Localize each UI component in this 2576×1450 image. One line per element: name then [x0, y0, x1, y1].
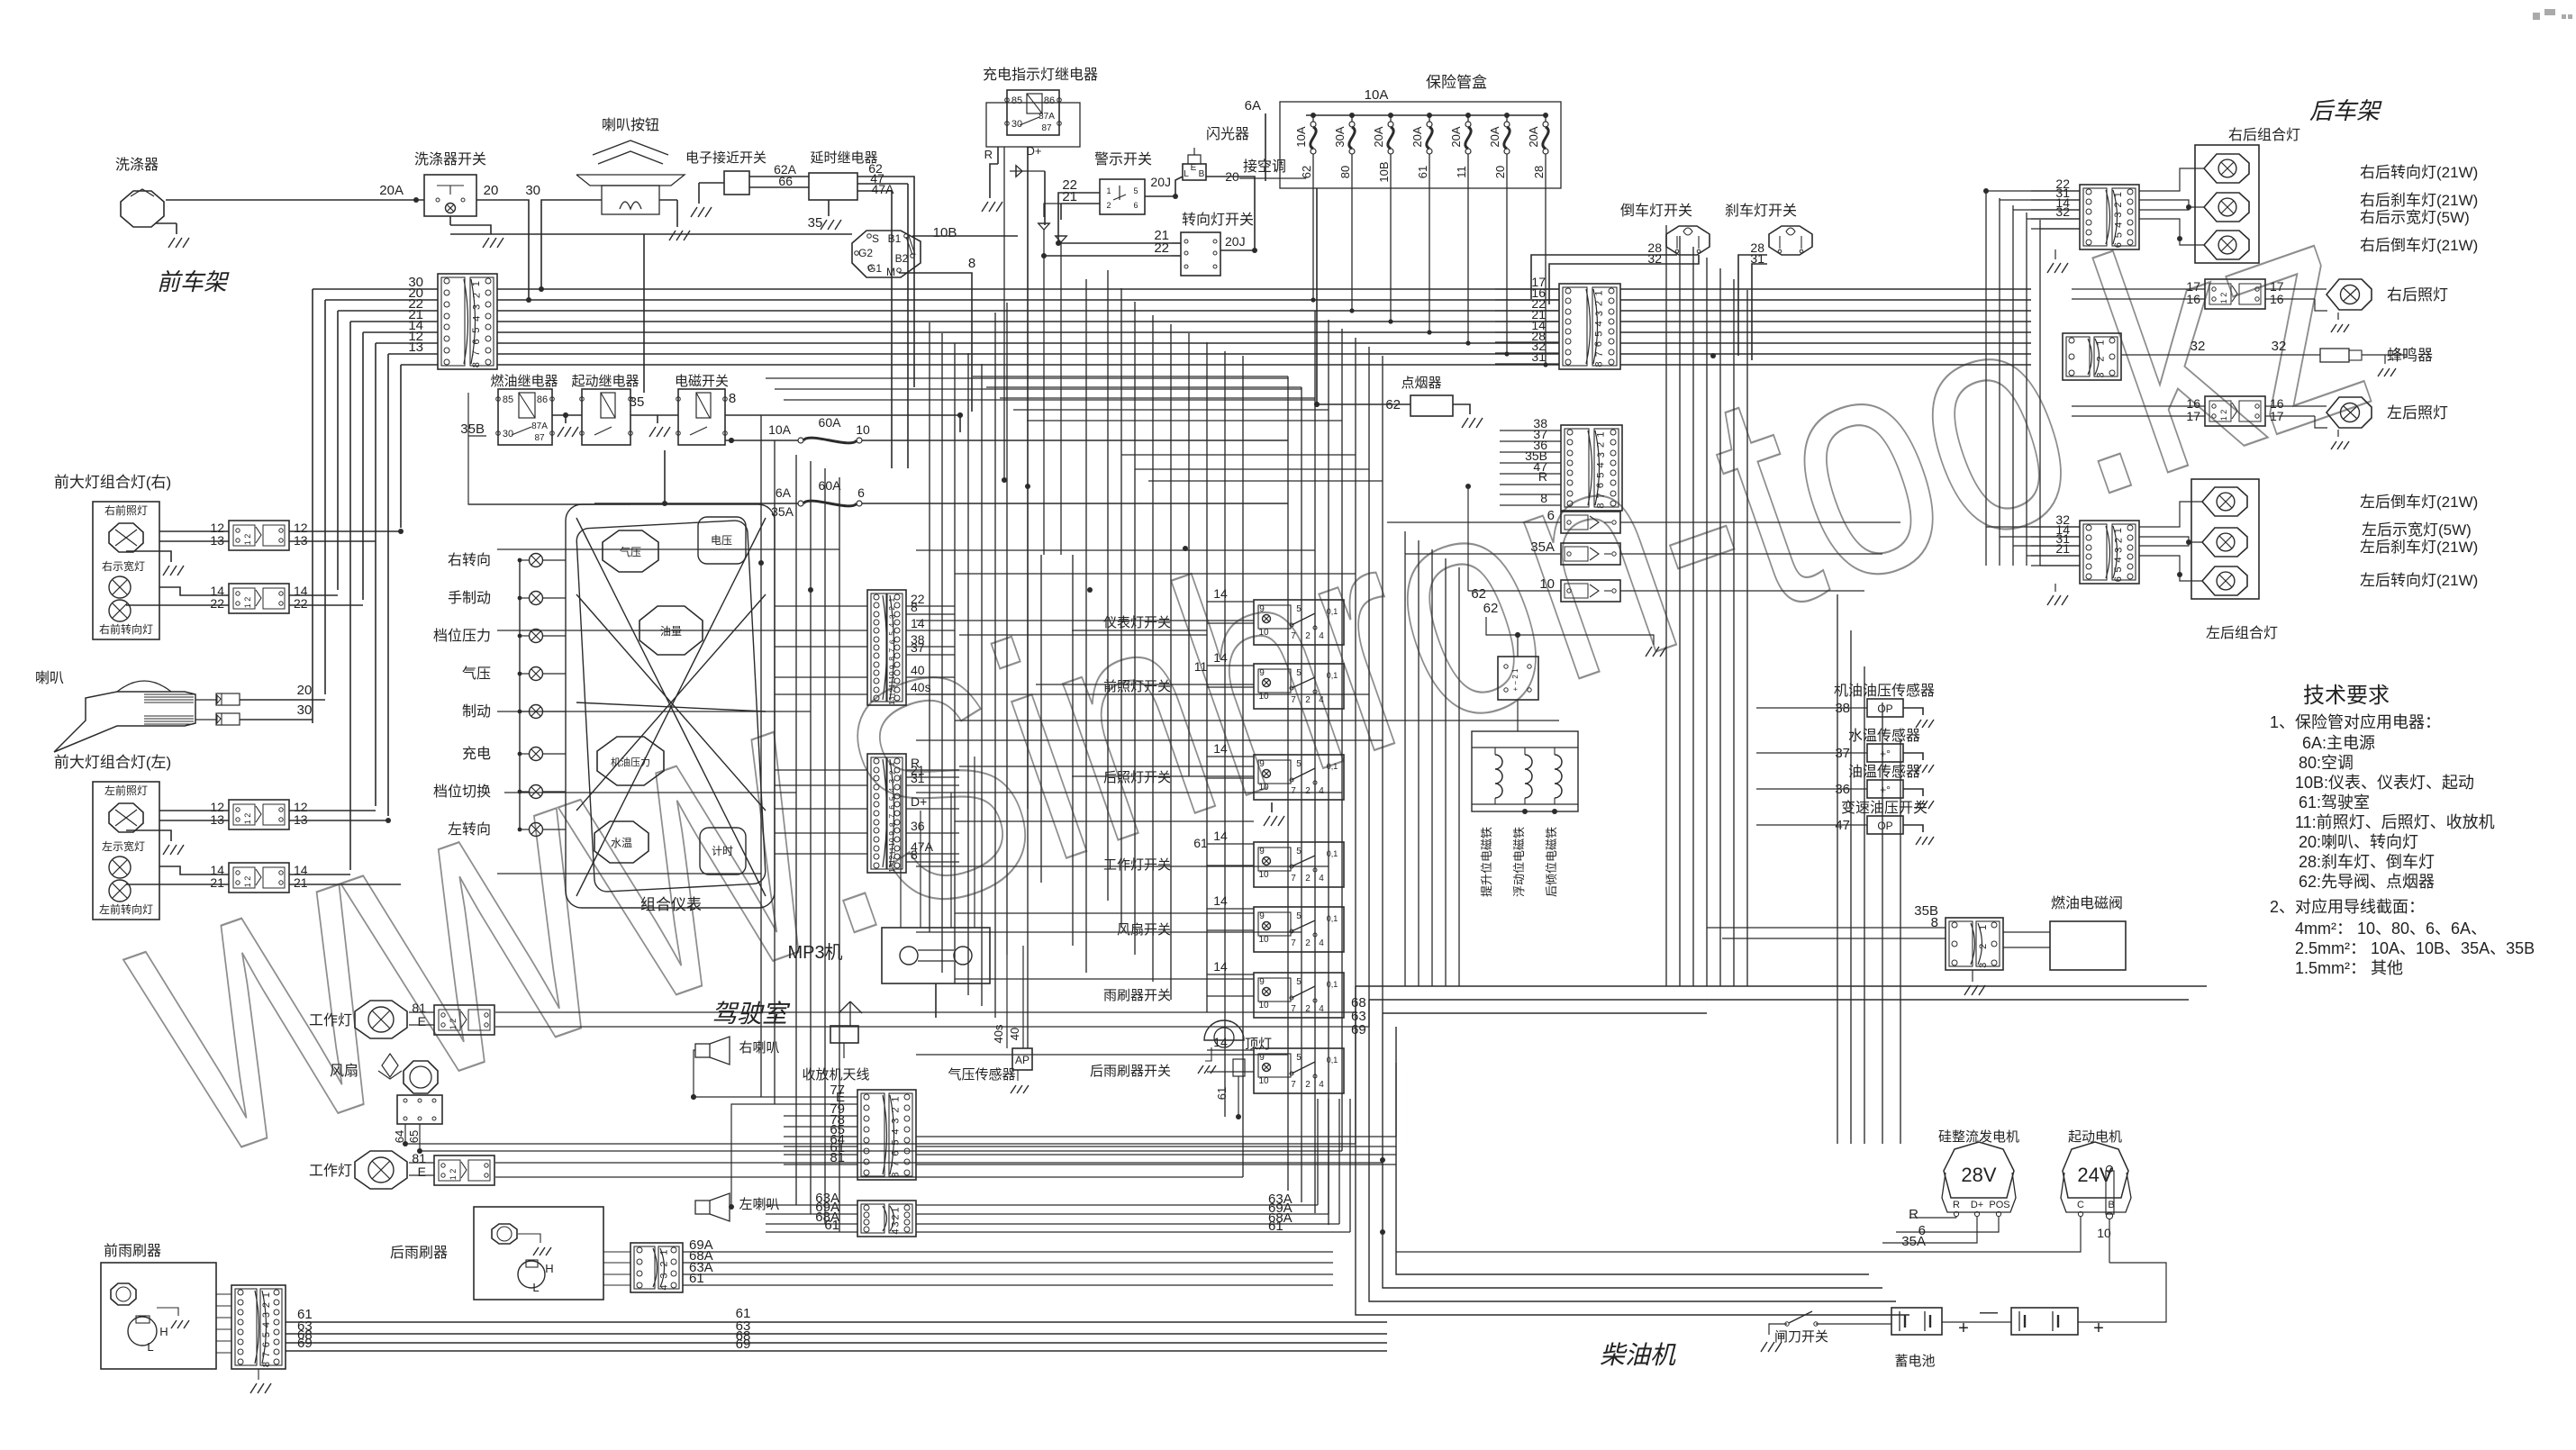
svg-text:电磁开关: 电磁开关: [675, 374, 729, 389]
svg-text:9: 9: [1259, 759, 1265, 769]
svg-text:右后转向灯(21W): 右后转向灯(21W): [2360, 164, 2478, 181]
svg-text:80:空调: 80:空调: [2299, 754, 2354, 772]
svg-text:G2: G2: [858, 247, 873, 259]
svg-text:5: 5: [1133, 186, 1138, 195]
svg-text:H: H: [159, 1325, 168, 1338]
svg-text:1 2: 1 2: [243, 813, 252, 825]
svg-text:左后转向灯(21W): 左后转向灯(21W): [2360, 572, 2478, 589]
svg-text:起动继电器: 起动继电器: [571, 374, 639, 389]
svg-text:6: 6: [471, 339, 482, 344]
svg-text:组合仪表: 组合仪表: [640, 896, 702, 913]
svg-text:1: 1: [891, 1096, 902, 1101]
svg-text:5: 5: [891, 1139, 902, 1145]
svg-text:7: 7: [1291, 631, 1296, 641]
svg-text:10: 10: [1258, 1001, 1269, 1010]
svg-text:10: 10: [1539, 576, 1555, 592]
svg-text:10: 10: [1258, 628, 1269, 638]
svg-text:4: 4: [1319, 1080, 1324, 1090]
svg-text:6A: 6A: [1245, 98, 1261, 113]
svg-text:右喇叭: 右喇叭: [739, 1040, 779, 1056]
svg-text:3: 3: [2114, 548, 2125, 553]
svg-text:30: 30: [525, 183, 540, 198]
svg-text:62: 62: [1471, 586, 1486, 602]
svg-text:2: 2: [891, 1107, 902, 1112]
svg-text:后雨刷器: 后雨刷器: [390, 1245, 448, 1261]
svg-text:11: 11: [887, 847, 896, 855]
svg-text:1: 1: [1106, 186, 1111, 195]
svg-text:风扇: 风扇: [330, 1063, 358, 1079]
svg-text:9: 9: [887, 831, 896, 836]
svg-text:1 2: 1 2: [2219, 410, 2228, 421]
svg-text:86: 86: [1044, 95, 1055, 106]
svg-text:档位切换: 档位切换: [433, 784, 491, 800]
svg-text:10: 10: [1258, 1076, 1269, 1086]
svg-text:前照灯开关: 前照灯开关: [1103, 679, 1171, 694]
svg-text:5: 5: [1296, 847, 1302, 856]
svg-text:左后照灯: 左后照灯: [2387, 404, 2448, 421]
svg-text:5: 5: [1593, 331, 1604, 337]
svg-text:蜂鸣器: 蜂鸣器: [2387, 347, 2433, 364]
svg-text:10: 10: [1258, 692, 1269, 702]
svg-text:+: +: [2093, 1319, 2104, 1338]
svg-text:提升位电磁铁: 提升位电磁铁: [1480, 827, 1493, 897]
svg-text:6: 6: [857, 485, 865, 500]
svg-text:电压: 电压: [711, 534, 732, 547]
svg-text:2: 2: [1106, 201, 1111, 210]
svg-text:6: 6: [1595, 483, 1606, 488]
svg-text:L: L: [147, 1340, 153, 1354]
svg-text:3: 3: [2113, 213, 2124, 218]
svg-text:右后倒车灯(21W): 右后倒车灯(21W): [2360, 237, 2478, 254]
svg-text:+: +: [1958, 1319, 1969, 1338]
svg-text:20A: 20A: [379, 183, 404, 198]
svg-text:1: 1: [659, 1250, 670, 1255]
svg-text:61: 61: [1416, 166, 1429, 178]
svg-text:61: 61: [824, 1218, 839, 1233]
svg-text:S: S: [872, 232, 879, 245]
svg-text:12: 12: [887, 855, 896, 864]
svg-text:E: E: [418, 1165, 426, 1179]
svg-text:11: 11: [887, 680, 896, 688]
svg-text:8: 8: [887, 822, 896, 827]
svg-text:1 2: 1 2: [243, 534, 252, 546]
svg-text:8: 8: [729, 391, 736, 406]
svg-text:3: 3: [1978, 963, 1989, 968]
svg-text:4: 4: [2114, 222, 2125, 228]
svg-text:左后刹车灯(21W): 左后刹车灯(21W): [2360, 539, 2478, 556]
svg-text:80: 80: [1338, 166, 1352, 178]
svg-text:3: 3: [1594, 311, 1605, 316]
svg-text:4: 4: [472, 316, 483, 322]
svg-text:右转向: 右转向: [448, 552, 491, 568]
svg-text:20J: 20J: [1150, 175, 1171, 189]
svg-text:6: 6: [891, 1150, 902, 1155]
svg-text:5: 5: [471, 328, 482, 333]
svg-text:右后组合灯: 右后组合灯: [2228, 127, 2300, 143]
svg-text:1: 1: [887, 597, 896, 602]
svg-text:+°: +°: [1880, 748, 1891, 760]
svg-text:20: 20: [484, 183, 499, 198]
svg-text:B2: B2: [895, 252, 909, 265]
svg-text:32: 32: [2055, 204, 2070, 219]
svg-text:3: 3: [261, 1312, 272, 1318]
svg-text:驾驶室: 驾驶室: [712, 1000, 791, 1028]
svg-text:64: 64: [393, 1130, 406, 1143]
svg-text:4: 4: [1596, 462, 1607, 467]
svg-text:5: 5: [887, 796, 896, 801]
svg-text:24V: 24V: [2077, 1164, 2112, 1186]
svg-text:28:刹车灯、倒车灯: 28:刹车灯、倒车灯: [2299, 853, 2435, 871]
svg-text:4: 4: [261, 1322, 272, 1328]
svg-text:2: 2: [659, 1262, 670, 1267]
svg-text:6: 6: [887, 639, 896, 644]
svg-text:OP: OP: [1877, 820, 1892, 832]
svg-text:5: 5: [1296, 1053, 1302, 1063]
svg-text:3: 3: [2096, 372, 2107, 377]
svg-text:后倾位电磁铁: 后倾位电磁铁: [1545, 827, 1558, 897]
svg-text:5: 5: [261, 1332, 272, 1337]
svg-text:20A: 20A: [1527, 126, 1540, 147]
svg-text:2: 2: [1305, 874, 1311, 884]
svg-text:7: 7: [891, 1161, 902, 1166]
svg-text:81: 81: [830, 1150, 845, 1165]
svg-text:8: 8: [891, 1172, 902, 1177]
svg-text:69: 69: [1351, 1022, 1366, 1038]
svg-text:10B: 10B: [1377, 161, 1391, 182]
svg-text:左后倒车灯(21W): 左后倒车灯(21W): [2360, 494, 2478, 511]
svg-text:电子接近开关: 电子接近开关: [685, 150, 766, 166]
svg-text:6: 6: [1593, 341, 1604, 347]
svg-text:风扇开关: 风扇开关: [1117, 922, 1171, 938]
svg-text:4: 4: [1319, 874, 1324, 884]
svg-text:13: 13: [210, 533, 224, 548]
svg-text:13: 13: [294, 812, 308, 827]
svg-text:10: 10: [1258, 783, 1269, 793]
svg-text:机油油压传感器: 机油油压传感器: [1834, 683, 1935, 699]
svg-text:右后照灯: 右后照灯: [2387, 286, 2448, 304]
svg-text:87: 87: [534, 433, 545, 443]
svg-text:61: 61: [1268, 1219, 1283, 1234]
svg-text:左示宽灯: 左示宽灯: [102, 839, 145, 853]
svg-text:7: 7: [1596, 493, 1607, 498]
svg-text:左后示宽灯(5W): 左后示宽灯(5W): [2362, 521, 2472, 539]
svg-text:60A: 60A: [819, 478, 842, 493]
svg-text:H: H: [545, 1262, 553, 1275]
svg-text:L: L: [532, 1281, 539, 1294]
svg-text:6: 6: [2113, 576, 2124, 582]
svg-text:喇叭: 喇叭: [35, 670, 64, 686]
svg-text:61: 61: [689, 1271, 704, 1286]
svg-text:4: 4: [1319, 631, 1324, 641]
svg-text:收放机天线: 收放机天线: [802, 1067, 869, 1083]
svg-text:气压: 气压: [620, 545, 641, 558]
svg-text:1: 1: [1596, 432, 1607, 438]
svg-text:10B:仪表、仪表灯、起动: 10B:仪表、仪表灯、起动: [2295, 774, 2474, 792]
svg-text:4mm²： 10、80、6、6A、: 4mm²： 10、80、6、6A、: [2295, 920, 2487, 938]
svg-text:6: 6: [1547, 508, 1555, 523]
svg-text:1: 1: [891, 1207, 902, 1212]
svg-text:4: 4: [891, 1228, 902, 1234]
svg-text:21: 21: [2055, 541, 2070, 556]
svg-text:1: 1: [887, 761, 896, 766]
svg-text:左后组合灯: 左后组合灯: [2206, 625, 2278, 641]
svg-text:2: 2: [1978, 944, 1989, 949]
svg-text:37: 37: [911, 640, 925, 655]
svg-text:油温传感器: 油温传感器: [1848, 764, 1920, 780]
svg-text:7: 7: [1291, 695, 1296, 705]
svg-text:4: 4: [2113, 557, 2124, 563]
svg-text:11:前照灯、后照灯、收放机: 11:前照灯、后照灯、收放机: [2295, 813, 2495, 831]
svg-text:35: 35: [630, 394, 645, 410]
svg-text:10: 10: [887, 671, 896, 680]
svg-text:61:驾驶室: 61:驾驶室: [2299, 793, 2370, 811]
svg-text:10: 10: [1258, 870, 1269, 880]
svg-text:2: 2: [2096, 356, 2107, 361]
svg-text:86: 86: [537, 394, 548, 405]
svg-text:2: 2: [261, 1302, 272, 1308]
svg-text:3: 3: [891, 1221, 902, 1227]
svg-text:7: 7: [1594, 351, 1605, 357]
svg-text:2: 2: [1305, 1080, 1311, 1090]
svg-text:右后刹车灯(21W): 右后刹车灯(21W): [2360, 192, 2478, 209]
svg-text:浮动位电磁铁: 浮动位电磁铁: [1512, 827, 1526, 897]
svg-text:OP: OP: [1877, 702, 1892, 715]
svg-text:保险管盒: 保险管盒: [1426, 74, 1487, 91]
svg-text:2: 2: [1593, 301, 1604, 306]
svg-text:3: 3: [891, 1118, 902, 1123]
svg-text:20J: 20J: [1225, 234, 1246, 249]
svg-text:12: 12: [887, 688, 896, 697]
svg-text:4: 4: [1319, 938, 1324, 948]
svg-text:10A: 10A: [768, 422, 792, 437]
svg-text:40s: 40s: [992, 1024, 1005, 1043]
svg-text:20A: 20A: [1372, 126, 1385, 147]
svg-text:6: 6: [887, 805, 896, 810]
svg-text:1 2: 1 2: [2219, 293, 2228, 304]
svg-text:6A: 6A: [776, 485, 792, 500]
svg-text:13: 13: [887, 864, 896, 873]
svg-text:2.5mm²： 10A、10B、35A、35B: 2.5mm²： 10A、10B、35A、35B: [2295, 939, 2535, 957]
svg-text:左前转向灯: 左前转向灯: [99, 902, 153, 916]
svg-text:前大灯组合灯(左): 前大灯组合灯(左): [54, 754, 171, 771]
svg-text:13: 13: [294, 533, 308, 548]
svg-text:6A:主电源: 6A:主电源: [2302, 734, 2375, 752]
svg-text:3: 3: [887, 614, 896, 619]
svg-text:21: 21: [1062, 189, 1077, 204]
svg-text:前雨刷器: 前雨刷器: [104, 1243, 161, 1259]
svg-text:8: 8: [1596, 503, 1607, 509]
svg-text:66: 66: [778, 174, 793, 188]
svg-text:13: 13: [408, 340, 423, 355]
svg-text:7: 7: [1291, 1080, 1296, 1090]
svg-text:充电: 充电: [462, 746, 491, 762]
svg-text:水温传感器: 水温传感器: [1848, 728, 1920, 744]
svg-text:7: 7: [887, 648, 896, 652]
svg-text:36: 36: [911, 819, 925, 833]
svg-text:5: 5: [1296, 759, 1302, 769]
svg-text:2: 2: [2113, 538, 2124, 543]
svg-text:32: 32: [2272, 339, 2287, 354]
svg-text:85: 85: [503, 394, 513, 405]
svg-text:POS: POS: [1989, 1200, 2009, 1210]
svg-text:4: 4: [887, 622, 896, 627]
svg-text:2: 2: [1305, 695, 1311, 705]
svg-text:14: 14: [911, 616, 925, 630]
svg-text:2: 2: [1595, 442, 1606, 448]
svg-text:2: 2: [891, 1214, 902, 1219]
svg-text:燃油电磁阀: 燃油电磁阀: [2051, 895, 2123, 911]
svg-text:2: 2: [471, 293, 482, 298]
svg-text:13: 13: [210, 812, 224, 827]
svg-text:技术要求: 技术要求: [2303, 684, 2390, 708]
svg-text:4: 4: [1594, 321, 1605, 326]
svg-text:8: 8: [261, 1362, 272, 1367]
svg-text:后雨刷器开关: 后雨刷器开关: [1090, 1064, 1171, 1079]
svg-text:R: R: [984, 148, 993, 161]
svg-text:6: 6: [1133, 201, 1138, 210]
svg-text:85: 85: [1011, 95, 1022, 106]
svg-text:1: 1: [2113, 528, 2124, 533]
svg-text:87: 87: [1041, 123, 1052, 133]
svg-text:35A: 35A: [1901, 1234, 1926, 1249]
svg-text:7: 7: [887, 813, 896, 818]
svg-text:2: 2: [887, 606, 896, 611]
svg-text:机油压力: 机油压力: [611, 756, 650, 768]
svg-text:工作灯: 工作灯: [309, 1012, 352, 1029]
svg-text:洗涤器: 洗涤器: [115, 157, 159, 173]
svg-text:11: 11: [1455, 166, 1468, 178]
svg-text:4: 4: [887, 787, 896, 792]
svg-text:3: 3: [887, 779, 896, 784]
svg-text:69: 69: [297, 1336, 313, 1351]
svg-text:AP: AP: [1015, 1054, 1029, 1066]
svg-text:9: 9: [887, 665, 896, 669]
svg-text:2: 2: [2113, 202, 2124, 207]
svg-text:4: 4: [891, 1128, 902, 1134]
svg-text:21: 21: [210, 875, 224, 890]
svg-text:2: 2: [887, 770, 896, 775]
svg-text:8: 8: [968, 256, 975, 271]
svg-text:顶灯: 顶灯: [1245, 1037, 1272, 1052]
svg-text:30: 30: [503, 429, 513, 440]
svg-text:87A: 87A: [531, 421, 548, 431]
svg-text:7: 7: [471, 350, 482, 356]
svg-text:1: 1: [2113, 192, 2124, 197]
svg-text:10A: 10A: [1294, 126, 1308, 147]
svg-text:31: 31: [911, 771, 925, 785]
svg-text:1: 1: [1978, 925, 1989, 930]
svg-text:28: 28: [1532, 166, 1546, 178]
svg-text:制动: 制动: [462, 703, 491, 720]
svg-text:87A: 87A: [1039, 112, 1055, 122]
svg-text:60A: 60A: [819, 415, 842, 430]
svg-text:刹车灯开关: 刹车灯开关: [1725, 203, 1797, 219]
svg-text:5: 5: [1296, 668, 1302, 678]
svg-text:充电指示灯继电器: 充电指示灯继电器: [983, 67, 1098, 83]
svg-text:62:先导阀、点烟器: 62:先导阀、点烟器: [2299, 873, 2435, 891]
svg-text:R: R: [1909, 1207, 1918, 1222]
svg-text:柴油机: 柴油机: [1600, 1341, 1676, 1369]
svg-text:21: 21: [294, 875, 308, 890]
svg-text:20A: 20A: [1410, 126, 1424, 147]
svg-text:工作灯开关: 工作灯开关: [1103, 857, 1171, 873]
svg-text:右后示宽灯(5W): 右后示宽灯(5W): [2360, 209, 2470, 226]
svg-text:30A: 30A: [1333, 126, 1347, 147]
svg-text:9: 9: [1259, 847, 1265, 856]
svg-text:计时: 计时: [712, 845, 733, 857]
svg-text:8: 8: [887, 657, 896, 661]
svg-text:5: 5: [1296, 911, 1302, 921]
svg-text:8: 8: [1540, 491, 1547, 505]
svg-text:40: 40: [1008, 1028, 1021, 1040]
svg-text:8: 8: [1594, 362, 1605, 367]
svg-text:35B: 35B: [460, 421, 485, 437]
svg-text:4: 4: [1319, 786, 1324, 796]
svg-text:32: 32: [2191, 339, 2206, 354]
svg-text:9: 9: [1259, 977, 1265, 987]
svg-text:气压传感器: 气压传感器: [948, 1067, 1015, 1083]
svg-text:20: 20: [297, 683, 313, 698]
svg-text:7: 7: [261, 1352, 272, 1357]
svg-text:1.5mm²： 其他: 1.5mm²： 其他: [2295, 959, 2403, 977]
svg-text:9: 9: [1259, 911, 1265, 921]
svg-text:工作灯: 工作灯: [309, 1163, 352, 1179]
svg-text:6: 6: [261, 1342, 272, 1347]
svg-text:2: 2: [1305, 631, 1311, 641]
svg-text:28V: 28V: [1961, 1164, 1996, 1186]
svg-text:11: 11: [1194, 659, 1208, 674]
svg-text:3: 3: [1596, 452, 1607, 458]
svg-text:22: 22: [294, 596, 308, 611]
svg-text:1: 1: [471, 281, 482, 286]
svg-text:雨刷器开关: 雨刷器开关: [1103, 988, 1171, 1003]
svg-text:62: 62: [1483, 601, 1499, 616]
svg-text:左前照灯: 左前照灯: [104, 784, 148, 797]
svg-text:65: 65: [407, 1130, 421, 1143]
svg-text:5: 5: [1595, 473, 1606, 478]
svg-text:油量: 油量: [660, 625, 682, 638]
svg-text:10A: 10A: [1365, 87, 1389, 103]
svg-text:右前照灯: 右前照灯: [104, 503, 148, 517]
svg-text:9: 9: [1259, 604, 1265, 614]
svg-text:仪表灯开关: 仪表灯开关: [1103, 615, 1171, 630]
svg-text:62: 62: [1300, 166, 1313, 178]
svg-text:10: 10: [856, 422, 870, 437]
svg-text:1 2: 1 2: [243, 597, 252, 609]
svg-text:8: 8: [911, 847, 918, 862]
svg-text:—: —: [1980, 1302, 1998, 1322]
svg-text:闪光器: 闪光器: [1206, 126, 1249, 142]
svg-text:燃油继电器: 燃油继电器: [490, 373, 558, 389]
svg-text:蓄电池: 蓄电池: [1894, 1354, 1935, 1369]
svg-text:5: 5: [887, 631, 896, 636]
svg-text:B1: B1: [888, 232, 902, 245]
svg-text:40s: 40s: [911, 680, 931, 694]
svg-text:20: 20: [1493, 166, 1507, 178]
svg-text:4: 4: [659, 1285, 670, 1291]
svg-text:8: 8: [471, 362, 482, 367]
svg-text:+ − 2 1: + − 2 1: [1511, 668, 1519, 691]
svg-text:转向灯开关: 转向灯开关: [1182, 212, 1254, 228]
svg-text:点烟器: 点烟器: [1401, 376, 1441, 391]
svg-text:后照灯开关: 后照灯开关: [1103, 770, 1171, 785]
svg-text:20A: 20A: [1488, 126, 1501, 147]
svg-text:1: 1: [261, 1292, 272, 1298]
svg-text:R: R: [1538, 469, 1547, 484]
svg-text:E: E: [418, 1014, 426, 1029]
svg-text:7: 7: [1291, 938, 1296, 948]
svg-text:C: C: [2077, 1200, 2084, 1210]
